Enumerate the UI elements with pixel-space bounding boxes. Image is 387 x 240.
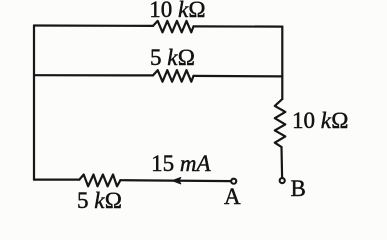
terminal A: [231, 179, 236, 184]
resistor 5 kOhm (middle): [153, 70, 194, 82]
terminal B: [280, 178, 285, 183]
wire: left rail: [33, 26, 35, 180]
svg-text:10 kΩ: 10 kΩ: [292, 108, 349, 133]
resistor 5 kOhm (bottom): [79, 175, 120, 187]
wire: top rail right segment: [194, 25, 283, 27]
svg-text:15 mA: 15 mA: [151, 151, 211, 176]
wire: right rail upper: [281, 27, 283, 99]
wire: middle rail left segment: [34, 74, 153, 76]
wire: to terminal B: [280, 147, 283, 178]
resistor 10 kOhm (top): [153, 21, 194, 32]
resistor 10 kOhm (right, vertical): [275, 99, 286, 147]
svg-text:5 kΩ: 5 kΩ: [150, 45, 195, 70]
wire: middle rail right segment: [194, 75, 283, 78]
wire: bottom rail right segment to terminal A: [120, 179, 230, 182]
wire: top rail left segment: [34, 24, 153, 27]
wire: bottom rail left segment: [34, 179, 79, 181]
current arrow 15 mA (pointing left): [172, 178, 181, 184]
svg-text:B: B: [291, 176, 306, 201]
svg-text:A: A: [224, 184, 241, 209]
svg-text:10 kΩ: 10 kΩ: [149, 0, 206, 22]
svg-text:5 kΩ: 5 kΩ: [77, 188, 122, 213]
